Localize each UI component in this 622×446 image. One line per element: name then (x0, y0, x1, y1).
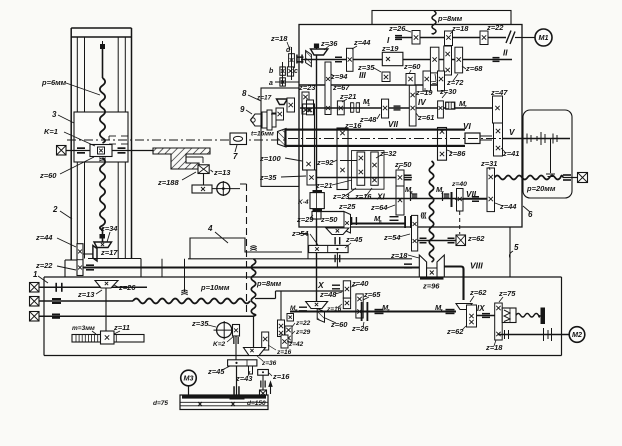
spindle end step (465, 133, 480, 144)
gear z=44 on II (347, 48, 354, 71)
shaft IV (300, 107, 492, 109)
svg-text:z=25: z=25 (338, 202, 356, 211)
vertical down to screw20 (550, 139, 552, 174)
svg-text:2: 2 (52, 205, 58, 214)
step link to M5 shaft (255, 298, 276, 300)
svg-text:z=67: z=67 (332, 83, 350, 92)
svg-text:z=54: z=54 (383, 233, 401, 242)
svg-text:z=45: z=45 (207, 367, 225, 376)
svg-text:1: 1 (33, 270, 38, 279)
bevel z=26 (95, 281, 118, 289)
svg-text:z=100: z=100 (259, 154, 281, 163)
svg-text:z=19: z=19 (381, 44, 399, 53)
box 7 with oval (230, 133, 247, 145)
gears below z=19 box (382, 72, 390, 82)
svg-text:z=21: z=21 (339, 92, 356, 101)
gear z=31/z=44 column (455, 198, 487, 200)
svg-text:z=19: z=19 (415, 88, 433, 97)
feed box 8 (261, 88, 299, 186)
svg-text:p=10мм: p=10мм (200, 283, 230, 292)
svg-text:z=188: z=188 (157, 178, 179, 187)
spindle taper front (278, 129, 287, 148)
pinion box z=13 (198, 165, 209, 174)
vertical to rail (236, 366, 238, 395)
gear z=30 (438, 101, 444, 118)
gear z=54 vertical right (412, 215, 418, 251)
svg-text:p=8мм: p=8мм (256, 279, 282, 288)
mesh stub z=92 to cluster (340, 160, 357, 162)
svg-text:z=29: z=29 (295, 329, 311, 336)
couplings on worm shaft (77, 147, 85, 149)
tall gear z=61 (409, 85, 416, 126)
svg-text:7: 7 (233, 152, 238, 161)
svg-text:z=16: z=16 (272, 372, 290, 381)
lower shaft to M2 (498, 334, 570, 336)
motor M2 (569, 327, 585, 343)
belt to motor (506, 31, 511, 44)
svg-text:p=20мм: p=20мм (526, 184, 556, 193)
M4 clutch (375, 309, 384, 311)
gear z=35 under z=100 (307, 170, 316, 185)
gear z=50/z=64 column (396, 170, 404, 186)
svg-text:z=23: z=23 (332, 192, 350, 201)
svg-text:VII: VII (466, 190, 477, 199)
bar with x (192, 185, 212, 193)
svg-text:b: b (269, 68, 274, 75)
main horizontal centerline (67, 139, 288, 141)
svg-text:K=1: K=1 (44, 127, 58, 136)
svg-text:z=42: z=42 (288, 341, 304, 348)
shaft V (503, 138, 571, 140)
dashed link down (240, 183, 247, 185)
svg-text:2: 2 (463, 104, 467, 109)
svg-text:z=35: z=35 (259, 173, 277, 182)
svg-text:z=64: z=64 (370, 203, 388, 212)
vertical link (203, 174, 205, 186)
hatched wall (541, 308, 546, 325)
svg-text:z=50: z=50 (394, 160, 412, 169)
svg-text:z=41: z=41 (502, 149, 519, 158)
handwheel circle (212, 188, 240, 190)
svg-text:K=2: K=2 (213, 341, 225, 348)
svg-text:III: III (359, 71, 367, 80)
svg-text:М3: М3 (184, 374, 194, 383)
vertical screw p=8mm (251, 259, 255, 316)
bevel z=54 bottom + bar z=45 (326, 228, 349, 235)
svg-text:t=16мм: t=16мм (251, 131, 274, 138)
svg-text:9: 9 (240, 105, 245, 114)
svg-text:z=26: z=26 (118, 283, 136, 292)
svg-text:d: d (286, 47, 291, 54)
clutch M1 jaw (351, 103, 354, 113)
svg-text:z=43: z=43 (235, 374, 253, 383)
svg-text:z=61: z=61 (417, 113, 434, 122)
svg-text:z=17: z=17 (256, 95, 272, 102)
svg-text:5: 5 (514, 243, 519, 252)
svg-text:z=18: z=18 (270, 34, 288, 43)
vertical gear column under M5 (280, 291, 282, 323)
svg-text:VIII: VIII (470, 261, 483, 271)
svg-text:z=92: z=92 (316, 158, 334, 167)
gear bar z=45 (228, 360, 257, 366)
svg-text:4: 4 (207, 224, 213, 233)
shaft III (299, 84, 445, 86)
screw p=20mm (495, 176, 564, 180)
svg-text:z=13: z=13 (77, 290, 95, 299)
svg-text:z=68: z=68 (465, 64, 483, 73)
worm K=1 (90, 145, 112, 157)
svg-text:z=50: z=50 (320, 215, 338, 224)
shaft IX (477, 315, 496, 317)
shaft stub to bevel (83, 253, 93, 255)
shaft VIII horizontal (83, 266, 419, 268)
svg-text:z=75: z=75 (498, 289, 516, 298)
shaft II (301, 59, 512, 61)
shaft a (z=26 bevel) (39, 286, 147, 288)
svg-text:z=17: z=17 (100, 248, 118, 257)
shaft XI lower (M8 M7) (348, 198, 487, 200)
gear z=26 on I (412, 31, 420, 45)
main bottom shaft (290, 311, 456, 313)
column 2 (left stand) (70, 28, 72, 260)
box step left bottom (299, 233, 308, 235)
column base (88, 258, 141, 260)
svg-text:z=72: z=72 (446, 78, 464, 87)
svg-text:z=48: z=48 (319, 290, 337, 299)
gear z=16 small (258, 370, 269, 376)
svg-text:II: II (503, 49, 508, 58)
svg-text:d=75: d=75 (153, 400, 168, 407)
svg-text:z=48: z=48 (359, 115, 377, 124)
gear z=86 (438, 128, 447, 161)
bottom feed box 1 (44, 276, 562, 278)
svg-text:z=36: z=36 (320, 39, 338, 48)
svg-text:z=16: z=16 (354, 192, 372, 201)
gear z=21 (337, 101, 344, 115)
shaft c (worm K=2) (39, 315, 254, 317)
gear block z=44 / z=22 (77, 244, 83, 276)
svg-text:z=22: z=22 (295, 320, 311, 327)
top cover box (372, 11, 511, 25)
worm K=2 (217, 323, 232, 338)
rack m=3mm with pinion z=11 (72, 335, 144, 343)
shaft b with screw p=10 (39, 300, 133, 302)
svg-text:d=150: d=150 (247, 400, 266, 407)
svg-text:М1: М1 (539, 33, 549, 42)
svg-text:z=22: z=22 (35, 261, 53, 270)
svg-text:8: 8 (242, 89, 247, 98)
gear z=48 on IV (382, 99, 389, 118)
svg-text:3: 3 (52, 110, 57, 119)
svg-text:K-4: K-4 (298, 199, 309, 206)
svg-text:z=30: z=30 (439, 87, 457, 96)
svg-text:XI: XI (376, 193, 385, 202)
z=42 z=16 gears (281, 335, 288, 348)
gear z=18 on I (445, 31, 453, 46)
motor M1 (522, 37, 535, 39)
svg-text:z=44: z=44 (353, 38, 371, 47)
shaft to z=62 box (418, 240, 456, 242)
svg-text:z=26: z=26 (351, 324, 369, 333)
small stub gear (249, 366, 253, 374)
svg-text:z=13: z=13 (213, 168, 231, 177)
svg-text:p=8мм: p=8мм (437, 14, 463, 23)
svg-text:z=94: z=94 (330, 72, 348, 81)
big gear z=100 on spindle (303, 104, 315, 170)
svg-text:z=62: z=62 (446, 327, 464, 336)
svg-text:a: a (269, 80, 273, 87)
svg-text:z=45: z=45 (345, 235, 363, 244)
svg-text:z=31: z=31 (480, 159, 497, 168)
big gear z=94 (325, 62, 331, 115)
svg-text:z=32: z=32 (379, 149, 397, 158)
gear box z=19 on II (382, 52, 403, 65)
svg-text:IX: IX (477, 304, 485, 313)
svg-text:z=40: z=40 (451, 181, 467, 188)
svg-text:p=6мм: p=6мм (41, 78, 67, 87)
svg-text:m=3мм: m=3мм (72, 325, 95, 332)
arm box 4 outline (190, 238, 302, 259)
svg-text:z=65: z=65 (363, 290, 381, 299)
gearbox outline (299, 25, 522, 228)
box 6 rounded (523, 110, 572, 198)
svg-text:z=18: z=18 (451, 24, 469, 33)
handle crossed box (57, 146, 67, 156)
screw top wavy p=8mm (432, 11, 436, 34)
K-4 clutch on vertical shaft (316, 55, 318, 301)
svg-text:z=60: z=60 (403, 62, 421, 71)
svg-text:z=86: z=86 (448, 149, 466, 158)
bevel z=34 on screw (102, 228, 104, 243)
big gear z=92 on spindle (337, 128, 348, 190)
shaft I (396, 37, 506, 39)
shaft M6 (351, 223, 406, 225)
gear cluster z=32 z=16 (352, 151, 385, 190)
svg-text:z=18: z=18 (390, 251, 408, 260)
gear cluster on II right (430, 47, 439, 73)
svg-text:z=96: z=96 (422, 282, 440, 291)
vertical feed screw (z=86 down) (429, 161, 433, 262)
drill chuck 9 (251, 114, 263, 126)
svg-text:z=34: z=34 (100, 224, 118, 233)
gear z=22 on I (480, 31, 488, 45)
spindle sleeve (285, 129, 465, 131)
z=26 coupling (361, 302, 363, 321)
svg-text:z=40: z=40 (351, 279, 369, 288)
svg-text:z=22: z=22 (486, 23, 504, 32)
bevel IX drive z=62 (456, 304, 472, 310)
bevel z=36 on II (316, 44, 318, 49)
svg-text:z=16: z=16 (276, 349, 292, 356)
svg-text:z=62: z=62 (467, 234, 485, 243)
svg-text:z=23: z=23 (298, 83, 316, 92)
vertical shaft to bevel cluster x=316 (306, 302, 328, 309)
gear z=65 column (356, 294, 363, 318)
bevel z=17 vertical (93, 246, 97, 262)
gear z=75 (495, 303, 503, 340)
motor M3 (181, 370, 197, 386)
svg-text:z=26: z=26 (388, 24, 406, 33)
svg-text:z=60: z=60 (39, 171, 57, 180)
svg-text:VII: VII (388, 120, 399, 129)
bevel z=36 bottom (244, 348, 266, 356)
spring safety clutch (502, 308, 516, 323)
svg-text:z=35: z=35 (191, 319, 209, 328)
svg-text:z=62: z=62 (469, 288, 487, 297)
left bearing boxes (30, 283, 40, 293)
base rail d=75 (180, 395, 268, 410)
clutch marks above worm (109, 135, 116, 137)
wavy link to wall (516, 313, 540, 317)
svg-text:z=44: z=44 (35, 233, 53, 242)
svg-text:М2: М2 (572, 330, 582, 339)
misc long verticals below column (161, 259, 163, 277)
clutch M2 box (446, 102, 455, 109)
svg-text:c: c (294, 68, 298, 75)
arrow up (270, 384, 272, 394)
svg-text:z=36: z=36 (261, 360, 277, 367)
svg-text:4: 4 (386, 308, 390, 313)
lead screw p=6mm (100, 44, 105, 49)
svg-text:z=11: z=11 (113, 323, 130, 332)
head box 3 (74, 112, 128, 162)
gear z=19b on III (423, 71, 431, 91)
shaft XI upper (316, 177, 412, 179)
gear z=40/z=16 column (343, 281, 350, 298)
handwheel shaft (66, 150, 90, 152)
centerline through spindle (288, 138, 568, 140)
svg-text:z=21: z=21 (315, 181, 332, 190)
svg-text:z=44: z=44 (499, 202, 517, 211)
